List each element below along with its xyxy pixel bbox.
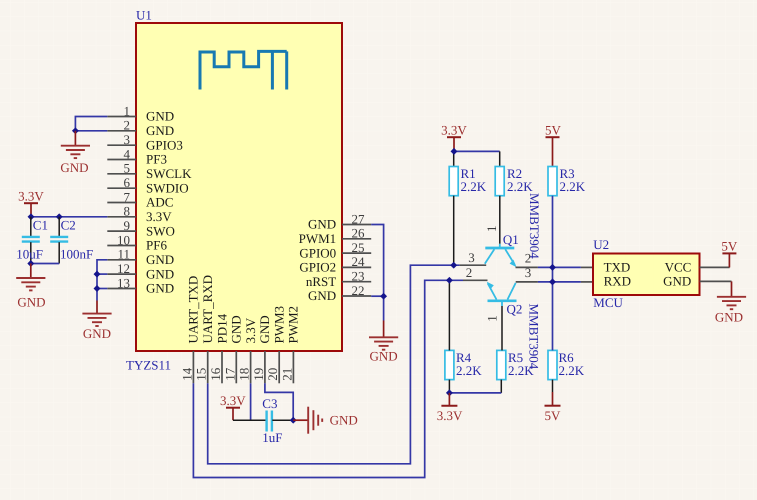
U1 pin 24 (GPIO2) right <box>299 254 371 274</box>
Q2 pin 3 stub (collector) <box>516 265 538 282</box>
U2 pin TXD <box>604 260 631 275</box>
svg-text:23: 23 <box>352 269 365 284</box>
svg-text:18: 18 <box>237 368 252 381</box>
Q1 pin 2 stub (emitter) <box>516 250 538 267</box>
transistor Q1 MMBT3904 <box>484 226 519 268</box>
svg-text:GND: GND <box>146 266 174 281</box>
svg-text:VCC: VCC <box>665 260 692 275</box>
svg-text:TXD: TXD <box>604 260 631 275</box>
svg-text:1: 1 <box>124 103 131 118</box>
U1 pin 6 (SWDIO) left <box>107 175 188 195</box>
svg-text:GND: GND <box>330 413 358 428</box>
node junction C3/GND <box>290 417 297 424</box>
svg-text:20: 20 <box>265 368 280 381</box>
node junction pin13 <box>94 285 101 292</box>
svg-text:2: 2 <box>466 265 473 280</box>
ground GND (pins 11-13) <box>82 301 111 341</box>
U1 pin 12 (GND) left <box>107 261 174 281</box>
antenna meander graphic inside U1 <box>200 51 287 89</box>
wire Q2 collector to U2 RXD <box>538 281 593 283</box>
U1 pin 8 (3.3V) left <box>107 204 172 224</box>
svg-text:GND: GND <box>146 252 174 267</box>
wire U1 pin18 (3.3V) down <box>250 383 252 420</box>
svg-text:2.2K: 2.2K <box>559 363 585 378</box>
wire Q1 emitter to U2 TXD <box>538 266 593 268</box>
ground GND (pins 22/27) <box>369 321 398 364</box>
svg-text:17: 17 <box>222 367 237 381</box>
svg-text:GND: GND <box>370 348 398 363</box>
wire UART_RXD pin15 route to Q1 <box>208 265 460 464</box>
part number TYZS11 <box>126 358 171 373</box>
svg-text:8: 8 <box>124 204 131 219</box>
U1 pin 1 (GND) left <box>107 103 174 123</box>
node junction C1/C2 ground <box>27 260 34 267</box>
U1 pin 13 (GND) left <box>107 275 174 295</box>
wire 3.3V rail to U1 pin 8 <box>31 216 107 218</box>
svg-text:PWM1: PWM1 <box>299 231 337 246</box>
wire R3 bottom bus to R6 top <box>552 196 554 351</box>
U1 pin 16 (PD14) bottom <box>208 313 229 383</box>
IC U2 MCU body <box>593 253 700 295</box>
node junction 3.3V/R1 <box>451 148 458 155</box>
svg-text:Q1: Q1 <box>503 232 519 247</box>
transistor Q2 MMBT3904 <box>485 282 523 322</box>
wire U1 pin1/pin2 to ground <box>75 117 107 131</box>
svg-text:UART_TXD: UART_TXD <box>186 276 201 344</box>
wire R4/R5 bottoms joined <box>449 380 501 393</box>
part name MCU <box>593 295 623 310</box>
svg-text:9: 9 <box>124 218 131 233</box>
svg-text:C3: C3 <box>262 396 277 411</box>
svg-text:14: 14 <box>179 367 194 381</box>
U1 pin 3 (GPIO3) left <box>107 132 183 152</box>
power port 3.3V (left) <box>18 188 44 217</box>
U1 pin 17 (GND) bottom <box>222 315 243 383</box>
lead R4 top from Q2 node <box>448 280 450 350</box>
svg-text:nRST: nRST <box>306 274 336 289</box>
svg-text:24: 24 <box>352 254 366 269</box>
lead R1 bottom to Q1 collector node <box>453 196 455 266</box>
resistor R4 2.2K <box>445 350 482 380</box>
svg-text:U1: U1 <box>136 8 152 23</box>
svg-text:PWM3: PWM3 <box>272 306 287 344</box>
node junction Q2 emitter/R4 <box>446 277 453 284</box>
svg-text:3: 3 <box>468 250 475 265</box>
node junction pin12 <box>94 271 101 278</box>
svg-text:ADC: ADC <box>146 195 173 210</box>
svg-text:MCU: MCU <box>593 295 623 310</box>
svg-text:GND: GND <box>17 294 45 309</box>
lead R2 bottom to Q1 base <box>499 196 501 244</box>
svg-text:GND: GND <box>60 160 88 175</box>
svg-text:3: 3 <box>525 265 532 280</box>
U1 pin 2 (GND) left <box>107 118 174 138</box>
svg-text:GND: GND <box>146 281 174 296</box>
U1 pin 10 (PF6) left <box>107 232 167 252</box>
U1 pin 9 (SWO) left <box>107 218 175 238</box>
svg-text:11: 11 <box>117 247 130 262</box>
svg-text:GND: GND <box>257 315 272 343</box>
wire UART_TXD pin14 route to Q2 <box>193 280 463 477</box>
node junction 3.3V/C1 <box>28 213 35 220</box>
svg-text:100nF: 100nF <box>60 246 93 261</box>
capacitor C1 10uF <box>16 217 48 264</box>
label MMBT3904 for Q2 <box>527 304 542 370</box>
svg-text:6: 6 <box>124 175 131 190</box>
U1 pin 7 (ADC) left <box>107 189 173 209</box>
svg-text:3.3V: 3.3V <box>220 393 246 408</box>
U1 pin 5 (SWCLK) left <box>107 161 192 181</box>
node junction R1/Q1 collector <box>450 262 457 269</box>
svg-text:7: 7 <box>124 189 131 204</box>
svg-text:16: 16 <box>208 367 223 381</box>
svg-text:2.2K: 2.2K <box>507 179 533 194</box>
svg-text:5: 5 <box>124 161 131 176</box>
svg-text:5V: 5V <box>545 408 562 423</box>
resistor R6 2.2K <box>548 350 585 380</box>
svg-text:22: 22 <box>352 283 365 298</box>
svg-text:3.3V: 3.3V <box>18 188 44 203</box>
svg-text:19: 19 <box>251 368 266 381</box>
svg-text:PWM2: PWM2 <box>286 306 301 344</box>
node junction Q2 collector/R6 bus <box>549 278 556 285</box>
resistor R2 2.2K <box>495 166 533 196</box>
svg-text:GPIO0: GPIO0 <box>299 245 336 260</box>
designator U1 <box>136 8 152 23</box>
U1 pin 15 (UART_RXD) bottom <box>194 275 215 383</box>
svg-text:TYZS11: TYZS11 <box>126 358 171 373</box>
U1 pin 23 (nRST) right <box>306 269 371 289</box>
svg-text:21: 21 <box>279 368 294 381</box>
svg-text:MMBT3904: MMBT3904 <box>527 193 542 259</box>
svg-text:27: 27 <box>352 211 366 226</box>
resistor R3 2.2K <box>548 166 586 196</box>
svg-text:26: 26 <box>352 226 366 241</box>
svg-text:GND: GND <box>308 288 336 303</box>
U1 pin 14 (UART_TXD) bottom <box>179 276 200 384</box>
svg-text:C2: C2 <box>61 217 76 232</box>
svg-text:10: 10 <box>117 232 130 247</box>
resistor R1 2.2K <box>449 166 487 196</box>
svg-text:PF3: PF3 <box>146 152 167 167</box>
U1 pin 22 (GND) right <box>308 283 371 303</box>
svg-text:PF6: PF6 <box>146 238 167 253</box>
designator U2 <box>593 237 609 252</box>
IC U1 TYZS11 module body <box>136 23 342 351</box>
svg-text:GND: GND <box>146 123 174 138</box>
node junction pin2 gnd <box>72 127 79 134</box>
node junction pin22 gnd <box>380 293 387 300</box>
svg-text:GND: GND <box>146 109 174 124</box>
svg-text:3.3V: 3.3V <box>441 123 467 138</box>
svg-text:1uF: 1uF <box>262 430 282 445</box>
node junction R4 bottom <box>446 389 453 396</box>
svg-text:2.2K: 2.2K <box>560 179 586 194</box>
power port 3.3V (bottom small) <box>220 393 246 420</box>
svg-text:GND: GND <box>83 326 111 341</box>
power port 5V (inverted, under R6) <box>545 380 562 423</box>
svg-text:25: 25 <box>352 240 365 255</box>
ground GND (sideways, at C3) <box>293 407 358 434</box>
resistor R5 2.2K <box>497 350 534 380</box>
U2 pin GND <box>663 274 731 289</box>
wire C2 bottom to C1 bottom <box>31 263 59 265</box>
wire U1 pin19 (GND) to C3 right node <box>265 383 293 420</box>
label MMBT3904 for Q1 <box>527 193 542 259</box>
lead R1 top <box>453 151 455 166</box>
power port 3.3V (inverted, under R4) <box>437 393 463 423</box>
svg-text:5V: 5V <box>545 123 562 138</box>
svg-text:3.3V: 3.3V <box>437 408 463 423</box>
capacitor C2 100nF <box>50 217 93 264</box>
capacitor C3 1uF <box>233 396 293 445</box>
ground GND (under C1/C2) <box>16 264 45 310</box>
svg-text:GND: GND <box>229 315 244 343</box>
node junction Q1 emitter/R3 bus <box>549 264 556 271</box>
U1 pin 11 (GND) left <box>107 247 174 267</box>
lead Q2 base to R5 top <box>501 306 503 350</box>
wire 3.3V to R2 top <box>454 151 500 166</box>
power port 5V (above R3) <box>545 123 562 167</box>
U1 pin 26 (PWM1) right <box>299 226 372 246</box>
svg-text:3.3V: 3.3V <box>146 209 172 224</box>
U1 pin 18 (3.3V) bottom <box>237 317 258 383</box>
svg-text:1: 1 <box>484 226 499 233</box>
svg-text:GND: GND <box>663 274 691 289</box>
svg-text:Q2: Q2 <box>507 302 523 317</box>
svg-text:4: 4 <box>124 146 131 161</box>
svg-text:15: 15 <box>194 368 209 381</box>
U2 pin VCC <box>665 260 730 275</box>
U1 pin 19 (GND) bottom <box>251 315 272 383</box>
svg-text:GND: GND <box>715 309 743 324</box>
svg-text:5V: 5V <box>721 239 738 254</box>
svg-text:C1: C1 <box>33 217 48 232</box>
svg-text:MMBT3904: MMBT3904 <box>527 304 542 370</box>
wire U1 pins 11-13 to ground <box>97 260 107 301</box>
power port 3.3V (above R1) <box>441 123 467 152</box>
U1 pin 21 (PWM2) bottom <box>279 306 300 383</box>
U1 pin 4 (PF3) left <box>107 146 167 166</box>
svg-text:2: 2 <box>124 118 131 133</box>
svg-text:3.3V: 3.3V <box>243 317 258 343</box>
svg-text:GPIO3: GPIO3 <box>146 137 183 152</box>
svg-text:RXD: RXD <box>604 274 631 289</box>
U1 pin 25 (GPIO0) right <box>299 240 371 260</box>
ground GND (pins 1-2) <box>60 131 90 175</box>
svg-text:UART_RXD: UART_RXD <box>200 275 215 344</box>
svg-text:U2: U2 <box>593 237 609 252</box>
svg-text:3: 3 <box>124 132 131 147</box>
svg-text:SWO: SWO <box>146 223 175 238</box>
node junction C2 tap <box>56 213 63 220</box>
ground GND (at U2) <box>715 281 746 324</box>
svg-text:12: 12 <box>117 261 130 276</box>
Q1 pin 3 stub (collector) <box>460 250 487 265</box>
wire U1 pin27 GND down to pin22 <box>371 225 383 321</box>
svg-text:2.2K: 2.2K <box>456 363 482 378</box>
U2 pin RXD <box>604 274 631 289</box>
svg-text:GND: GND <box>308 217 336 232</box>
power port 5V (at U2 VCC) <box>721 239 738 268</box>
svg-text:13: 13 <box>117 275 130 290</box>
svg-text:1: 1 <box>485 315 500 322</box>
svg-text:PD14: PD14 <box>214 313 229 343</box>
U1 pin 27 (GND) right <box>308 211 371 231</box>
svg-text:GPIO2: GPIO2 <box>299 260 336 275</box>
Q2 pin 2 stub (emitter) <box>463 265 488 281</box>
svg-text:SWCLK: SWCLK <box>146 166 192 181</box>
svg-text:10uF: 10uF <box>16 246 43 261</box>
svg-text:2.2K: 2.2K <box>461 179 487 194</box>
U1 pin 20 (PWM3) bottom <box>265 306 286 383</box>
svg-text:SWDIO: SWDIO <box>146 180 189 195</box>
